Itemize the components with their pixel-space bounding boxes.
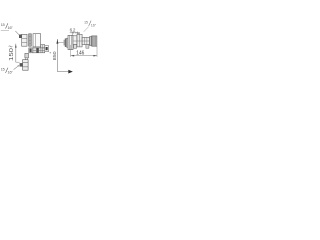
svg-text:150: 150 bbox=[9, 48, 15, 61]
svg-text:146: 146 bbox=[76, 51, 84, 57]
svg-text:850: 850 bbox=[52, 51, 57, 60]
svg-text:62: 62 bbox=[70, 27, 76, 32]
